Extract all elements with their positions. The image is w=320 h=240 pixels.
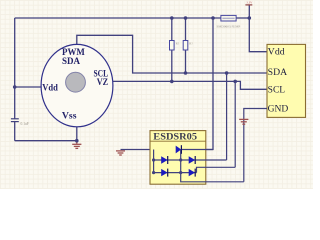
diode D5 (row2 right) [189, 169, 196, 177]
wire VCC drop to ESD array [206, 18, 213, 150]
wire ESD left vertical [153, 150, 155, 173]
wire below capacitor to bottom rail [14, 122, 16, 141]
diode D4 (row2 left) [161, 169, 168, 177]
diode D2 (row1 left) [161, 156, 168, 164]
svg-text:ESDSR05: ESDSR05 [153, 132, 197, 142]
svg-text:SDA: SDA [62, 56, 80, 66]
wire bottom ground rail [15, 140, 77, 142]
svg-text:SCL: SCL [268, 85, 286, 95]
ground GND1 (sensor Vss) [72, 141, 81, 149]
resistor R2 [183, 41, 188, 51]
wire 3.3V rail (top, right segment) [236, 17, 249, 19]
svg-text:3.3V: 3.3V [246, 1, 253, 5]
svg-text:VZ: VZ [97, 77, 108, 87]
wire ESD center ground rail [181, 150, 244, 182]
capacitor C1 0.1uF [11, 119, 19, 122]
svg-text:Vss: Vss [62, 111, 77, 121]
wire 3.3V power drop to Vdd pin of connector [249, 6, 267, 52]
svg-text:SMD0603/JUMP: SMD0603/JUMP [217, 25, 241, 29]
svg-text:R?: R? [176, 42, 180, 46]
wire pull-up R2 top [185, 18, 187, 41]
svg-text:Vdd: Vdd [268, 46, 285, 56]
wire pull-up R2 bottom to SDA [185, 50, 187, 73]
ESD U2 title separator [150, 140, 206, 142]
diode D1 (TVS, top) [176, 145, 182, 154]
wire pull-up R1 bottom to SCL [171, 50, 173, 81]
svg-text:0.1uF: 0.1uF [21, 122, 29, 126]
wire SCL drop [234, 81, 236, 167]
ground GND2 (ESD array left) [116, 151, 125, 155]
svg-text:Vdd: Vdd [42, 82, 58, 92]
wire 3.3V rail (top, left segment) [15, 17, 221, 19]
svg-text:SDA: SDA [268, 67, 288, 77]
resistor R3 0R jumper [221, 15, 236, 21]
wire Vss pin to ground rail [76, 127, 78, 141]
wire ESD row2 step to SCL branch [197, 167, 236, 172]
wire ESD row1 / SDA branch [154, 159, 227, 161]
wire ESD top rail (cathode side to VCC) [181, 149, 213, 151]
connector J1 body [267, 44, 306, 117]
wire pull-up R1 top [171, 18, 173, 41]
ESD suppressor U2 body ESDSR05 [150, 131, 206, 185]
diode D3 (row1 right) [189, 156, 196, 164]
svg-text:GND: GND [268, 104, 289, 114]
svg-text:R?: R? [189, 42, 193, 46]
sensor U1 die circle [66, 72, 86, 92]
wire SCL net: sensor right pin to connector [113, 81, 267, 89]
resistor R1 [170, 41, 175, 51]
ground GND3 (connector GND net) [239, 119, 248, 124]
power +3.3V [245, 1, 253, 5]
wire left vertical drop to capacitor [14, 18, 16, 119]
sensor U1 body [41, 44, 113, 126]
wire ESD row2 [154, 172, 197, 174]
wire Vdd pin of sensor [15, 86, 42, 88]
wire connector GND to ESD ground [244, 109, 267, 182]
wire SDA net: sensor top pin to connector [77, 35, 267, 73]
wire SDA drop [226, 73, 228, 160]
wire ESD array anode rail to GND2 [121, 149, 176, 151]
